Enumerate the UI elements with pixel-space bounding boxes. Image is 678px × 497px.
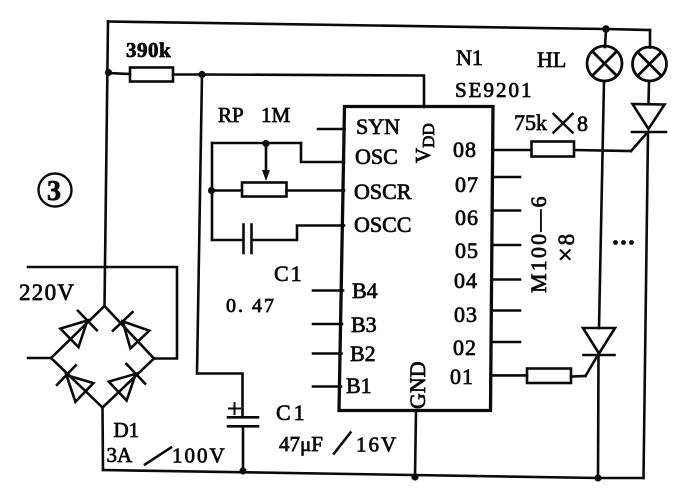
svg-text:390k: 390k [126,38,171,62]
diode D1b (R to T) [123,321,150,348]
wire thyristor V2 gate [631,134,647,152]
node junction wiper-top [262,140,269,147]
wire pin 01 lead [492,374,527,377]
wire cap047 to OSCC [253,226,345,241]
svg-text:C1: C1 [274,261,304,286]
wire GND lead [415,411,416,478]
svg-text:47μF: 47μF [279,432,323,456]
wire OSCR left lead [212,189,243,192]
svg-text:N1: N1 [456,45,483,70]
svg-text:06: 06 [455,205,479,230]
wire AC left stub [28,357,51,360]
svg-text:100V: 100V [172,444,227,468]
wire AC top input [28,267,177,359]
svg-text:05: 05 [455,238,479,263]
svg-text:01: 01 [450,364,474,389]
svg-text:1M: 1M [261,103,291,127]
svg-text:×8: ×8 [551,234,580,262]
wire B3 stub [313,323,342,326]
wire pin 02 stub [492,341,521,344]
lamp HL1 [587,46,622,81]
wire thyristor V1 cathode down [597,355,600,478]
svg-text:OSCC: OSCC [354,212,411,237]
diode D1c (B to L) [66,375,93,402]
svg-text:75k: 75k [514,110,547,135]
node junction left-390k [105,69,112,76]
svg-text:8: 8 [577,111,588,136]
resistor R1 75k [527,369,571,384]
wire cap047 left lead [212,239,243,242]
wire top rail [108,22,650,31]
wire OSC link [301,143,344,162]
wire pin 05 stub [492,244,520,247]
wire lamp2 to thyristor V2 [647,81,650,104]
svg-text:D1: D1 [114,418,140,442]
wire pin 03 stub [492,309,520,312]
capacitor C1 polarity plus [229,408,240,410]
node junction cap-bottom [239,467,246,474]
capacitor C1 0.47 plates [242,225,245,254]
svg-text:08: 08 [453,137,477,162]
wire B down-leg to C1 electrolytic [197,75,243,418]
svg-text:0. 47: 0. 47 [226,295,276,317]
svg-text:HL: HL [537,47,566,72]
thyristor V1 (lower) [583,328,615,354]
node junction thy2-bottom [594,474,601,481]
wire thyristor V1 gate [586,357,598,377]
wire bridge edge L-T [51,306,105,358]
wire pin 06 stub [493,209,520,212]
wire 390k left lead [109,73,131,74]
potentiometer RP network: top wire [212,142,301,145]
wire right rail (thyristor V2 cathode down) [644,132,649,478]
wire 390k right lead [173,73,202,76]
svg-text:C1: C1 [276,400,308,425]
node junction top-lamp1 [602,25,610,33]
resistor 390k [130,68,173,82]
resistor R8 75k [532,142,575,157]
wire C1 bottom lead [242,426,245,471]
diode D1d (B to R) [109,374,136,401]
svg-text:GND: GND [405,361,430,409]
svg-text:16V: 16V [356,433,398,457]
svg-text:04: 04 [454,268,478,293]
wire bridge edge T-R [105,306,155,359]
op-amp U1: IC N1 SE9201 box [339,107,493,411]
svg-text:RP: RP [218,103,244,127]
wire lamp2 top lead [649,30,652,48]
potentiometer RP body [242,183,287,197]
svg-text:B2: B2 [350,341,376,366]
node junction pot-left [208,187,215,194]
svg-text:03: 03 [454,302,478,327]
svg-text:M100—6: M100—6 [526,194,551,293]
wire wiper [265,144,268,173]
svg-text:07: 07 [455,172,479,197]
wire lamp1 top lead [605,29,606,47]
svg-text:SYN: SYN [356,114,400,139]
diode D1a (L to T) [60,321,87,348]
wire bottom rail [103,470,644,478]
thyristor V2 (upper) [633,104,665,129]
wire left rail [105,22,109,307]
wire B to VDD [202,75,424,108]
svg-text:OSC: OSC [355,144,398,169]
svg-text:B1: B1 [346,373,372,398]
node junction B (390k output) [198,71,205,78]
wire pin 08 lead [493,149,531,152]
wire bridge bottom lead [101,408,104,471]
wire pin 07 stub [493,176,520,179]
wire OSCR to IC [287,189,345,192]
svg-text:SE9201: SE9201 [455,78,534,102]
wire SYN stub [318,128,345,131]
svg-text:B4: B4 [352,278,378,303]
wire bridge edge B-L [51,358,103,408]
wire R1 to gate [571,375,586,378]
node junction gnd-bottom [411,473,418,480]
label circled 3 [39,174,72,207]
svg-text:220V: 220V [19,280,75,305]
wire B2 stub [313,352,342,355]
svg-text:B3: B3 [351,312,377,337]
svg-text:3A: 3A [107,443,134,467]
wire lamp1 to thyristor V1 [599,81,604,328]
wire pin 04 stub [492,278,520,281]
lamp HL2 [633,47,667,81]
svg-text:VDD: VDD [411,123,438,163]
wire R8 to gate [575,150,632,151]
svg-text:OSCR: OSCR [354,179,412,204]
wire B1 stub [313,385,341,388]
capacitor C1 47uF plates [228,416,258,419]
svg-text:3: 3 [47,176,61,207]
wire bridge edge B-R [103,359,155,408]
wire B4 stub [313,289,343,292]
node ellipsis dots [613,240,618,245]
svg-text:02: 02 [453,335,477,360]
wire pot left leg [211,143,214,240]
